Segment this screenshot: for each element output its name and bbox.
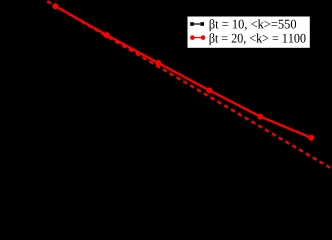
legend sample line 2 (red, circles) bbox=[190, 35, 205, 40]
marker point 2 bbox=[104, 32, 110, 38]
marker point 1 bbox=[52, 3, 58, 9]
legend label 2 bbox=[210, 33, 306, 45]
legend sample line 1 (black, squares) bbox=[190, 22, 204, 26]
data series solid line (bt=20) bbox=[55, 6, 311, 138]
marker point 5 bbox=[257, 114, 263, 120]
dashed fit line (bt=20 power-law fit) bbox=[45, 0, 330, 168]
legend label 1 bbox=[210, 19, 297, 31]
marker point 3 bbox=[155, 60, 161, 66]
marker point 6 bbox=[308, 135, 314, 141]
marker point 4 bbox=[206, 87, 212, 93]
legend box bbox=[187, 16, 310, 48]
